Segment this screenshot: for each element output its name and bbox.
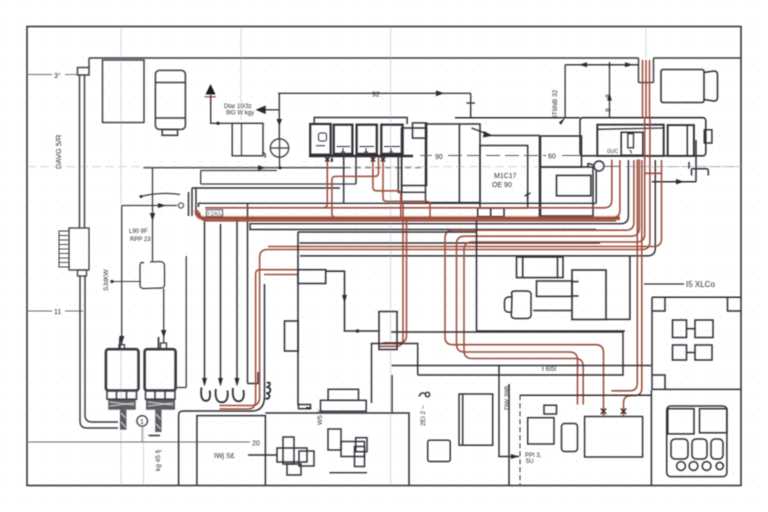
svg-text:60: 60 <box>548 154 556 161</box>
svg-text:t 6I5I: t 6I5I <box>542 366 557 373</box>
svg-text:5U: 5U <box>526 459 534 465</box>
svg-text:8: 8 <box>606 94 613 98</box>
svg-text:DAVG 5/R: DAVG 5/R <box>54 134 63 169</box>
svg-text:2EI 2 ~: 2EI 2 ~ <box>420 405 427 426</box>
svg-text:DW 39B: DW 39B <box>504 386 511 410</box>
svg-text:9IG W kgy: 9IG W kgy <box>226 111 254 117</box>
svg-text:3°: 3° <box>54 72 61 80</box>
svg-text:6T6NB 32: 6T6NB 32 <box>552 89 559 119</box>
svg-text:I5 XLCo: I5 XLCo <box>686 280 715 289</box>
svg-text:20: 20 <box>252 441 260 448</box>
svg-text:GUC: GUC <box>607 149 619 155</box>
svg-text:L90 9F: L90 9F <box>129 229 148 235</box>
svg-text:W5 fj: W5 fj <box>317 410 324 425</box>
svg-text:RPP 23: RPP 23 <box>130 237 151 243</box>
svg-text:OE 90: OE 90 <box>492 182 512 189</box>
svg-text:1: 1 <box>140 419 144 426</box>
svg-text:11: 11 <box>54 309 61 316</box>
svg-text:92: 92 <box>372 92 380 99</box>
svg-text:kg 45 fj: kg 45 fj <box>155 450 162 471</box>
svg-text:SJdKW: SJdKW <box>103 268 110 291</box>
svg-text:8: 8 <box>606 108 613 112</box>
svg-text:90: 90 <box>435 154 443 161</box>
svg-text:Dtar 10/3z: Dtar 10/3z <box>224 104 252 110</box>
svg-text:IWj S£: IWj S£ <box>214 453 235 460</box>
svg-text:M1C17: M1C17 <box>494 173 517 180</box>
